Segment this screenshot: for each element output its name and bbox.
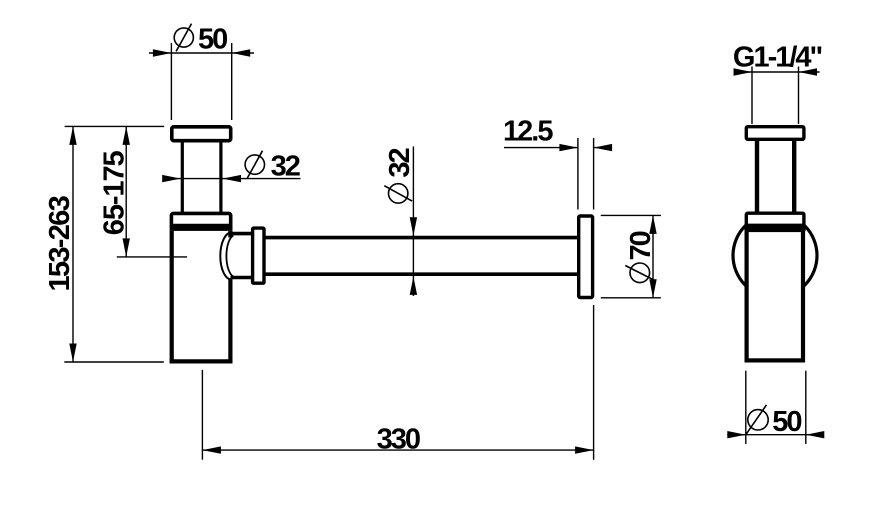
trap lower flange [171, 213, 230, 225]
dimension 12.5: dim lines [504, 138, 612, 210]
dimension D50 top: arrows [153, 49, 250, 56]
dimension D70: arrows [649, 215, 656, 297]
inlet vertical pipe walls [182, 142, 221, 213]
dimension D50 bottom: extension lines [727, 371, 823, 444]
svg-text:G1-1/4": G1-1/4" [733, 42, 822, 74]
dimension D32 vertical pipe: dim line [163, 178, 301, 180]
wall flange [579, 216, 593, 298]
dimension 12.5: arrows [559, 144, 612, 151]
locking nut dark band [170, 224, 233, 231]
side view bottle body [747, 230, 803, 360]
horizontal pipe walls [264, 238, 578, 275]
side view locking nut dark band [745, 224, 806, 231]
dimension D32 horizontal pipe: arrows [410, 217, 417, 295]
dimension G1-1/4: arrows [734, 68, 818, 75]
dimension 330: extension lines [202, 305, 593, 460]
dimension D32 vertical pipe: label [245, 151, 300, 183]
dimension D70: extension lines [601, 215, 661, 297]
dimension 65-175: label [99, 151, 131, 236]
svg-text:330: 330 [377, 423, 420, 455]
trap inlet top flange [172, 127, 231, 141]
side view lower flange [746, 213, 804, 225]
dimension 65-175: arrows [123, 126, 130, 257]
svg-text:32: 32 [271, 151, 300, 183]
dimension D70: rotated label [625, 231, 657, 282]
dimension D32 vertical pipe: arrows [162, 175, 241, 182]
dimension D50 bottom: arrows [727, 431, 824, 438]
svg-text:153-263: 153-263 [44, 195, 76, 291]
bottle body left wall [170, 231, 233, 364]
dimension 330: arrows [202, 446, 593, 453]
dimension 153-263: label [44, 195, 76, 291]
dimension D50 top: extension lines [149, 43, 254, 120]
dimension 153-263: arrows [69, 126, 76, 362]
dimension D50 bottom: label [746, 405, 802, 438]
svg-text:12.5: 12.5 [503, 116, 553, 148]
dimension D32 horizontal pipe: dim line crossing pipe [412, 147, 414, 297]
compression nut [253, 228, 264, 283]
dimension D50 top: diameter symbol and text [174, 24, 227, 56]
side view inlet pipe walls [757, 141, 794, 212]
svg-text:50: 50 [772, 406, 801, 438]
elbow curved faces [220, 233, 233, 280]
svg-text:65-175: 65-175 [99, 151, 131, 236]
dimension 153-263: extension lines and dim line [64, 126, 164, 362]
dimension D32 horizontal pipe: rotated label [384, 148, 416, 203]
dimension 65-175: dim line [117, 126, 187, 257]
svg-text:32: 32 [384, 148, 416, 177]
elbow outlet connector [230, 234, 252, 278]
svg-text:50: 50 [198, 24, 227, 56]
dimension G1-1/4: dim line and extension lines [735, 67, 820, 125]
side view wall flange circle D70 [733, 214, 817, 298]
side view top flange [746, 127, 804, 140]
svg-text:70: 70 [625, 231, 657, 260]
